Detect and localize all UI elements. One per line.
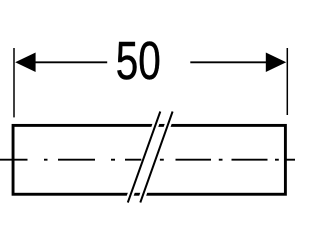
svg-text:50: 50 xyxy=(116,31,161,91)
